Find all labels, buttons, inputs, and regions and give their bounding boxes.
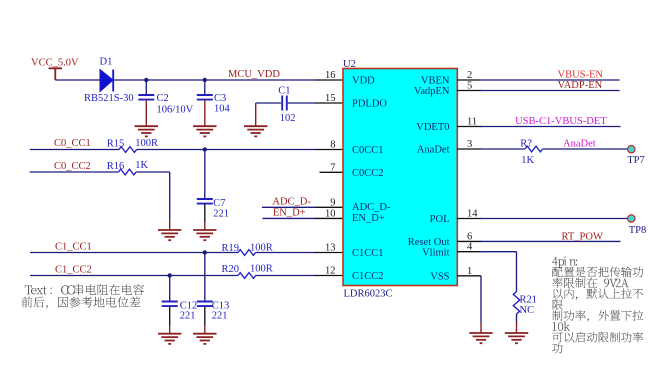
- pin stub pin 15: [316, 102, 344, 104]
- pin stub pin 14: [457, 218, 481, 220]
- svg-text:AnaDet: AnaDet: [563, 139, 596, 150]
- pin stub pin 2: [457, 79, 481, 81]
- test point TP7: [628, 146, 635, 153]
- wire C12 ground stem: [169, 325, 171, 334]
- svg-text:100R: 100R: [250, 242, 273, 253]
- svg-text:NC: NC: [520, 305, 535, 316]
- svg-text:9: 9: [330, 197, 335, 208]
- svg-text:PDLDO: PDLDO: [352, 99, 387, 110]
- wire C12 upper lead: [169, 276, 171, 302]
- pin stub pin 1: [457, 275, 481, 277]
- note text line: 以内，默认上拉不: [553, 288, 643, 300]
- note text line: 4pin:: [552, 257, 577, 269]
- junction at C7: [203, 147, 207, 151]
- wire C0_CC2 right: [136, 171, 170, 173]
- svg-text:MCU_VDD: MCU_VDD: [228, 69, 280, 80]
- capacitor plates C12: [162, 302, 178, 307]
- wire VSS down: [480, 276, 482, 322]
- capacitor plates C3: [197, 95, 213, 100]
- wire R21 lower lead: [516, 314, 518, 323]
- resistor body R?: [525, 146, 543, 152]
- svg-text:C0_CC1: C0_CC1: [54, 138, 91, 149]
- wire C2 lower lead: [145, 100, 147, 127]
- svg-text:RB521S-30: RB521S-30: [84, 93, 134, 104]
- pin stub pin 8: [316, 149, 344, 151]
- wire USB-C1-VBUS-DET: [480, 126, 621, 128]
- wire R? to TP7: [543, 148, 629, 150]
- svg-text:D1: D1: [100, 57, 113, 68]
- wire C13 ground stem: [204, 325, 206, 334]
- ground (C3): [193, 126, 216, 136]
- svg-text:ADC_D-: ADC_D-: [352, 202, 391, 213]
- wire C1 left lead: [256, 102, 281, 104]
- wire C1_CC2 right: [256, 275, 317, 277]
- svg-text:8: 8: [330, 140, 335, 151]
- pin stub pin 13: [316, 252, 344, 254]
- svg-text:AnaDet: AnaDet: [417, 145, 450, 156]
- note text line: 率限制在 9V2A: [552, 277, 629, 288]
- wire C3 upper lead: [204, 80, 206, 95]
- wire C0_CC1 right: [137, 149, 317, 151]
- svg-text:TP8: TP8: [629, 225, 647, 236]
- capacitor plates C2: [138, 95, 154, 100]
- wire C7 upper lead: [204, 150, 206, 200]
- svg-text:C1: C1: [278, 85, 290, 96]
- svg-text:13: 13: [325, 243, 336, 254]
- svg-text:ADC_D-: ADC_D-: [272, 196, 311, 207]
- svg-text:VBUS-EN: VBUS-EN: [558, 69, 604, 80]
- wire pin3 to R?: [480, 148, 525, 150]
- wire VBUS-EN: [480, 79, 620, 81]
- junction at C2: [144, 78, 148, 82]
- svg-text:16: 16: [325, 70, 336, 81]
- ground (VSS): [469, 333, 492, 343]
- wire R16 down: [169, 172, 171, 220]
- resistor body R16: [119, 169, 137, 175]
- wire pin4 down to R21: [516, 252, 518, 292]
- svg-text:C0CC1: C0CC1: [352, 145, 384, 156]
- svg-text:106/10V: 106/10V: [157, 105, 194, 116]
- svg-text:VBEN: VBEN: [421, 76, 450, 87]
- wire C1_CC1 left: [30, 252, 238, 254]
- junction at C13: [203, 250, 207, 254]
- wire ADC_D-: [262, 206, 317, 208]
- svg-text:VCC_5.0V: VCC_5.0V: [31, 58, 79, 69]
- ground (R21): [505, 333, 528, 343]
- wire pin14 to TP8: [480, 218, 628, 220]
- pin stub pin 3: [457, 148, 481, 150]
- svg-text:1K: 1K: [135, 160, 148, 171]
- svg-text:C0_CC2: C0_CC2: [54, 161, 91, 172]
- wire VSS ground stem: [480, 322, 482, 333]
- svg-text:221: 221: [212, 310, 228, 321]
- note text line: 配置是否把传输功: [552, 267, 643, 278]
- note text line: 可以启动限制功率: [552, 332, 643, 343]
- svg-text:104: 104: [214, 104, 231, 115]
- svg-text:POL: POL: [430, 214, 450, 225]
- resistor body R20: [238, 273, 256, 279]
- junction at C3: [203, 78, 207, 82]
- svg-text:221: 221: [180, 310, 196, 321]
- wire C13 upper lead: [204, 253, 206, 302]
- svg-text:221: 221: [213, 208, 229, 219]
- pin stub pin 6: [457, 240, 481, 242]
- junction at C12: [168, 273, 172, 277]
- resistor body R19: [238, 250, 256, 256]
- wire C1_CC2 left: [30, 275, 238, 277]
- wire pin4 right: [480, 251, 517, 253]
- pin stub pin 12: [316, 275, 344, 277]
- svg-text:10: 10: [325, 208, 336, 219]
- svg-text:R19: R19: [222, 243, 240, 254]
- svg-text:R15: R15: [107, 138, 125, 149]
- svg-text:VSS: VSS: [430, 271, 449, 282]
- svg-text:EN_D+: EN_D+: [273, 207, 306, 218]
- wire EN_D+: [263, 217, 317, 219]
- wire C3 lower lead: [204, 100, 206, 127]
- ground (C13): [193, 334, 216, 344]
- svg-text:VDET0: VDET0: [416, 122, 449, 133]
- svg-text:VDD: VDD: [352, 76, 375, 87]
- wire RT_POW: [480, 240, 621, 242]
- svg-text:USB-C1-VBUS-DET: USB-C1-VBUS-DET: [515, 116, 607, 127]
- wire C13 lower lead: [204, 306, 206, 325]
- wire C0_CC1 left: [30, 149, 119, 151]
- note text line: 制功率，外置下拉: [552, 310, 643, 322]
- pin stub pin 7: [320, 171, 344, 173]
- pin stub pin 4: [457, 251, 481, 253]
- wire R16 ground stem: [169, 220, 171, 230]
- wire C7 ground stem: [204, 222, 206, 230]
- note text line: Text：CC串电阻在电容: [25, 284, 144, 295]
- wire R21 ground stem: [516, 322, 518, 333]
- capacitor plates C13: [197, 302, 213, 307]
- svg-text:LDR6023C: LDR6023C: [344, 289, 393, 300]
- svg-text:100R: 100R: [250, 264, 273, 275]
- wire C2 upper lead: [145, 80, 147, 95]
- svg-text:RT_POW: RT_POW: [562, 231, 603, 242]
- pin stub pin 5: [457, 90, 481, 92]
- note text line: 功: [552, 343, 563, 353]
- ground (C1): [244, 126, 267, 136]
- svg-text:R20: R20: [222, 264, 240, 275]
- svg-text:C0CC2: C0CC2: [352, 168, 384, 179]
- power symbol VCC_5.0V bar: [49, 68, 63, 80]
- ground (R16): [158, 230, 181, 240]
- note text line: 限: [553, 300, 563, 310]
- svg-text:U2: U2: [343, 59, 356, 70]
- diode D1: [100, 70, 113, 92]
- pin stub pin 16: [316, 79, 344, 81]
- resistor body R21: [513, 292, 519, 314]
- test point TP8: [628, 215, 635, 222]
- pin stub pin 11: [457, 126, 481, 128]
- wire C7 lower lead: [204, 204, 206, 222]
- ground (C7): [193, 230, 216, 240]
- note text line: 10k: [553, 322, 570, 331]
- op-amp / IC U2 body: [343, 69, 457, 286]
- svg-text:C1_CC1: C1_CC1: [55, 242, 92, 253]
- resistor body R15: [119, 147, 137, 153]
- svg-text:R21: R21: [520, 294, 538, 305]
- capacitor plates C7: [197, 199, 213, 204]
- svg-text:R?: R?: [520, 138, 532, 149]
- svg-text:R16: R16: [107, 161, 125, 172]
- wire C12 lower lead: [169, 306, 171, 325]
- svg-text:7: 7: [330, 162, 335, 173]
- svg-text:C3: C3: [214, 93, 226, 104]
- ground (C2): [135, 126, 158, 136]
- wire C0_CC2 left: [30, 171, 119, 173]
- wire VADP-EN: [480, 90, 620, 92]
- svg-text:VadpEN: VadpEN: [414, 86, 450, 97]
- note text line: 前后，因参考地电位差: [22, 297, 141, 309]
- svg-text:C2: C2: [157, 93, 169, 104]
- wire C1 ground stem: [255, 103, 257, 126]
- svg-text:12: 12: [325, 266, 336, 277]
- svg-text:VADP-EN: VADP-EN: [558, 80, 603, 91]
- svg-text:TP7: TP7: [627, 155, 645, 166]
- svg-text:15: 15: [325, 93, 336, 104]
- svg-text:C1CC1: C1CC1: [352, 248, 384, 259]
- svg-text:1K: 1K: [521, 155, 534, 166]
- capacitor C1 plates: [282, 96, 287, 111]
- pin stub pin 10: [316, 217, 344, 219]
- svg-text:102: 102: [280, 113, 296, 124]
- svg-text:100R: 100R: [135, 138, 158, 149]
- svg-text:Vlimit: Vlimit: [422, 247, 450, 258]
- svg-text:EN_D+: EN_D+: [352, 213, 385, 224]
- ground (C12): [158, 334, 181, 344]
- svg-text:C1CC2: C1CC2: [352, 271, 384, 282]
- wire C1 right lead to pin 15: [288, 102, 317, 104]
- wire VCC rail to pin 16: [55, 79, 316, 81]
- wire C1_CC1 right: [256, 252, 317, 254]
- pin stub pin 9: [316, 206, 344, 208]
- svg-text:C1_CC2: C1_CC2: [55, 265, 92, 276]
